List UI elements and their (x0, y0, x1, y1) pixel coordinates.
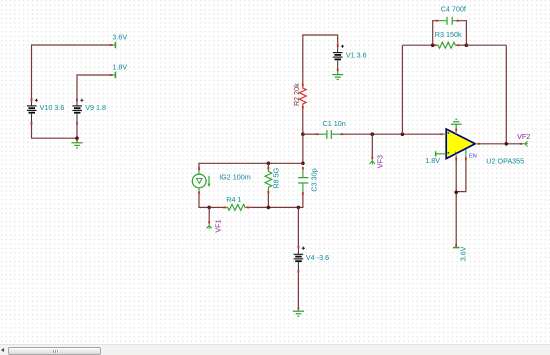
wire V4 top (297, 207, 299, 245)
svg-text:R8 5G: R8 5G (271, 167, 280, 188)
svg-text:R2 20k: R2 20k (292, 83, 301, 106)
pin EN (465, 150, 467, 162)
scrollbar left arrow (1, 348, 4, 352)
wire C1 to op-amp inverting input (343, 133, 440, 135)
pin non-inverting input with 1.8V rail bar (435, 151, 446, 156)
node C3 top junction (301, 162, 305, 166)
wire middle top rail (199, 163, 303, 171)
wire feedback right vertical (505, 45, 507, 144)
scrollbar thumb grip (53, 350, 59, 353)
node junction left ground (75, 136, 79, 140)
resistor R3 (434, 42, 466, 48)
node R8 bottom junction (267, 206, 271, 210)
svg-text:V4 -3.6: V4 -3.6 (306, 253, 329, 262)
pin VF1 probe (207, 221, 212, 229)
wire IG2 bottom elbow (199, 194, 209, 207)
node R3 left junction (431, 43, 435, 47)
node supply junction (454, 191, 458, 195)
wire VF1 to R4 (209, 206, 223, 208)
current source IG2 (192, 167, 210, 194)
scrollbar track (0, 344, 550, 355)
pin 1.8V rail terminal (109, 72, 116, 79)
label V1 3.6 (346, 51, 367, 60)
svg-text:IG2 100m: IG2 100m (219, 172, 251, 181)
svg-text:R4 1: R4 1 (226, 195, 241, 204)
wire feedback top left segment (402, 44, 433, 46)
capacitor C4 (436, 17, 460, 25)
wire C4 branch right (459, 21, 466, 45)
label R2 20k (292, 83, 301, 106)
resistor R2 (selected red) (299, 84, 306, 109)
label V10 3.6 (40, 103, 65, 112)
label 1.8V at op-amp (425, 156, 440, 165)
resistor R4 (223, 204, 249, 210)
label V9 1.8 (85, 103, 106, 112)
label R8 5G (271, 167, 280, 188)
pin VF3 probe (370, 156, 375, 164)
capacitor C1 (316, 130, 344, 139)
ground above op-amp (451, 119, 462, 134)
label C4 700f (441, 4, 466, 13)
svg-text:1.8V: 1.8V (112, 62, 127, 71)
wire bus down to C3 node (302, 134, 304, 163)
wire C3 bottom elbow to V4 node (298, 195, 303, 208)
node V4 junction (297, 206, 301, 210)
svg-text:C1 10n: C1 10n (323, 119, 346, 128)
node R8 top junction (267, 162, 271, 166)
scrollbar thumb (8, 347, 101, 355)
pin output (475, 143, 480, 145)
label IG2 100m (219, 172, 251, 181)
svg-text:VF1: VF1 (214, 219, 223, 232)
label 3.6V supply (459, 246, 468, 261)
svg-text:3.6V: 3.6V (112, 33, 127, 42)
wire V10 V9 bottoms to ground node (32, 124, 78, 138)
resistor R8 (265, 163, 272, 207)
battery V10 (27, 98, 38, 124)
pin VF2 probe (520, 141, 529, 146)
label U2 OPA355 (486, 156, 524, 165)
svg-text:V9 1.8: V9 1.8 (85, 103, 106, 112)
net label 3.6V (112, 33, 127, 42)
capacitor C3 (298, 167, 308, 195)
wire VF3 stub (371, 134, 373, 156)
svg-text:R3 150k: R3 150k (435, 30, 462, 39)
wire V9 top to 1.8V rail (77, 75, 109, 101)
battery V4 (294, 245, 305, 273)
wire R2 to input node (302, 109, 304, 134)
pin V- bottom (455, 155, 457, 163)
node VF3 tap (371, 132, 375, 136)
wire C4 branch left (433, 21, 436, 45)
label R3 150k (435, 30, 462, 39)
node VF1 tap (207, 206, 211, 210)
wire V4 to ground (297, 273, 299, 307)
wire feedback left vertical (401, 45, 403, 134)
pin 3.6V rail terminal (109, 42, 116, 49)
op-amp U2 OPA355 body (446, 129, 475, 159)
svg-text:C4 700f: C4 700f (441, 4, 466, 13)
pin inverting input (440, 133, 446, 135)
svg-text:C3 30p: C3 30p (310, 168, 319, 191)
wire feedback top right segment (466, 44, 506, 46)
node input bus junction (301, 132, 305, 136)
label VF1 (214, 219, 223, 232)
wire V1 top rail (303, 35, 338, 84)
svg-text:1.8V: 1.8V (425, 156, 440, 165)
wire V10 top to 3.6V rail (32, 45, 110, 101)
node feedback tap (401, 132, 405, 136)
pin 3.6V supply terminal (453, 244, 460, 248)
label VF2 (517, 132, 530, 141)
ground GND1 (71, 139, 82, 148)
wire EN pin down elbow (457, 160, 466, 191)
svg-text:EN: EN (469, 154, 477, 160)
ground below V4 (293, 307, 304, 317)
wire V- pin down to supply (455, 160, 457, 244)
node output junction (505, 142, 509, 146)
label C3 30p (310, 168, 319, 191)
wire output (480, 143, 519, 145)
ground below V1 (332, 69, 343, 80)
node R3 right junction (465, 43, 469, 47)
svg-text:V1 3.6: V1 3.6 (346, 51, 367, 60)
svg-text:3.6V: 3.6V (459, 246, 468, 261)
svg-text:VF3: VF3 (375, 155, 384, 168)
label C1 10n (323, 119, 346, 128)
wire input node to C1 (303, 133, 316, 135)
wire VF1 stub (208, 207, 210, 221)
wire R4 to bottom rail (249, 206, 298, 208)
label EN (469, 154, 477, 160)
label V4 -3.6 (306, 253, 329, 262)
svg-text:U2 OPA355: U2 OPA355 (486, 156, 524, 165)
battery V9 (72, 98, 83, 124)
label VF3 (375, 155, 384, 168)
battery V1 (333, 44, 344, 69)
svg-text:VF2: VF2 (517, 132, 530, 141)
net label 1.8V (112, 62, 127, 71)
svg-text:V10 3.6: V10 3.6 (40, 103, 65, 112)
label R4 1 (226, 195, 241, 204)
